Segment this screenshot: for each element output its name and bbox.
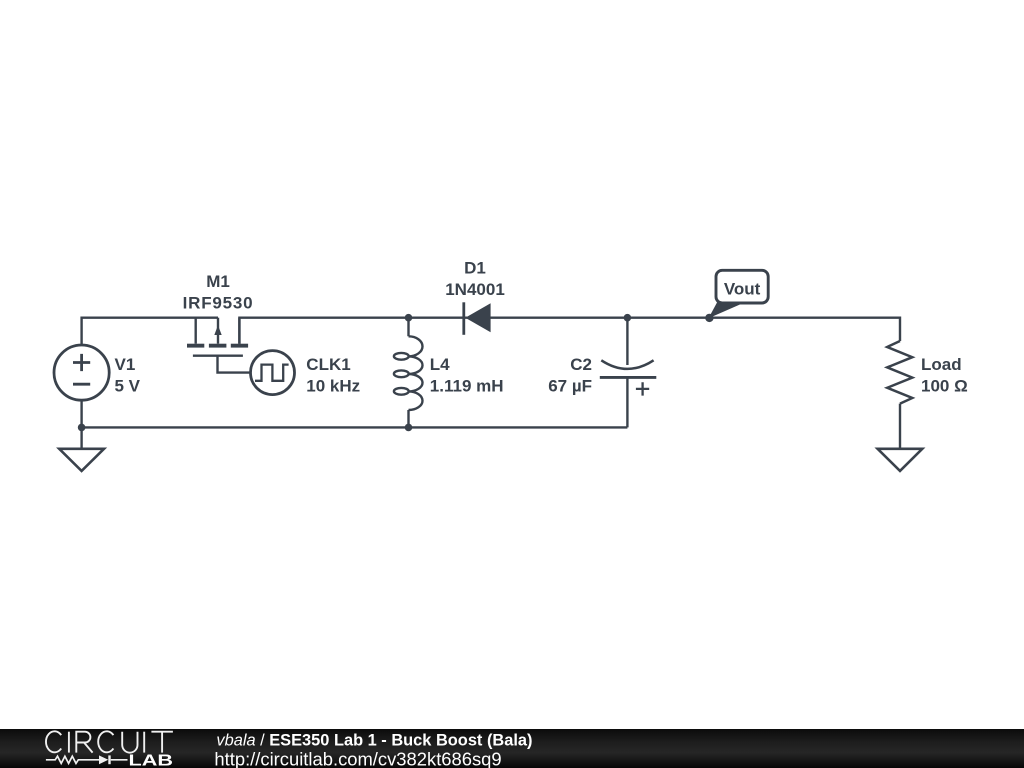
node flag Vout bbox=[709, 270, 769, 318]
logo letter U bbox=[122, 732, 137, 753]
svg-text:http://circuitlab.com/cv382kt6: http://circuitlab.com/cv382kt686sq9 bbox=[214, 748, 501, 768]
svg-text:100 Ω: 100 Ω bbox=[921, 376, 968, 395]
svg-text:vbala / ESE350 Lab 1 - Buck Bo: vbala / ESE350 Lab 1 - Buck Boost (Bala) bbox=[216, 731, 532, 749]
svg-text:1.119 mH: 1.119 mH bbox=[430, 376, 504, 395]
svg-text:10 kHz: 10 kHz bbox=[306, 377, 360, 396]
logo letter T bbox=[151, 732, 173, 753]
logo letter R bbox=[76, 732, 92, 753]
logo letter C bbox=[98, 731, 113, 752]
svg-text:V1: V1 bbox=[115, 355, 136, 374]
svg-text:LAB: LAB bbox=[129, 753, 174, 768]
voltage source V1 bbox=[54, 345, 109, 400]
svg-text:M1: M1 bbox=[206, 272, 230, 291]
svg-text:5 V: 5 V bbox=[115, 376, 141, 395]
ground GND2 bbox=[878, 449, 923, 471]
svg-text:L4: L4 bbox=[430, 355, 450, 374]
wire top rail left (V1 to M1 source/body) bbox=[82, 318, 218, 345]
wire top rail right (M1 drain to load corner) bbox=[239, 318, 900, 344]
logo letter I bbox=[143, 732, 145, 753]
node junction L4 top bbox=[405, 314, 413, 322]
node junction C2 top bbox=[624, 314, 632, 322]
svg-text:C2: C2 bbox=[570, 355, 592, 374]
svg-text:Load: Load bbox=[921, 355, 962, 374]
ground GND1 bbox=[59, 427, 104, 471]
wire gate to CLK1 bbox=[218, 356, 251, 373]
svg-text:Vout: Vout bbox=[724, 280, 761, 299]
svg-text:1N4001: 1N4001 bbox=[445, 280, 505, 299]
svg-text:CLK1: CLK1 bbox=[306, 355, 350, 374]
node junction Vout dot bbox=[705, 314, 713, 322]
svg-text:IRF9530: IRF9530 bbox=[183, 294, 254, 313]
logo resistor-diode glyph bbox=[46, 755, 128, 764]
logo CircuitLab wordmark bbox=[46, 731, 173, 768]
inductor L4 bbox=[394, 318, 423, 428]
footer black bar bbox=[0, 729, 1024, 768]
capacitor C2 bbox=[600, 318, 657, 428]
wire bottom rail bbox=[82, 400, 628, 427]
resistor Load bbox=[887, 341, 912, 404]
transistor M1 PMOS bbox=[187, 318, 248, 356]
diode D1 bbox=[464, 302, 491, 335]
wire load to ground bbox=[899, 404, 901, 449]
svg-text:67 µF: 67 µF bbox=[548, 376, 592, 395]
svg-text:D1: D1 bbox=[464, 259, 486, 278]
node junction L4 bottom bbox=[405, 424, 413, 432]
logo letter C bbox=[46, 731, 61, 752]
logo letter I bbox=[68, 732, 70, 753]
clock source CLK1 bbox=[251, 351, 295, 395]
node junction at V1 / ground bbox=[78, 424, 86, 432]
